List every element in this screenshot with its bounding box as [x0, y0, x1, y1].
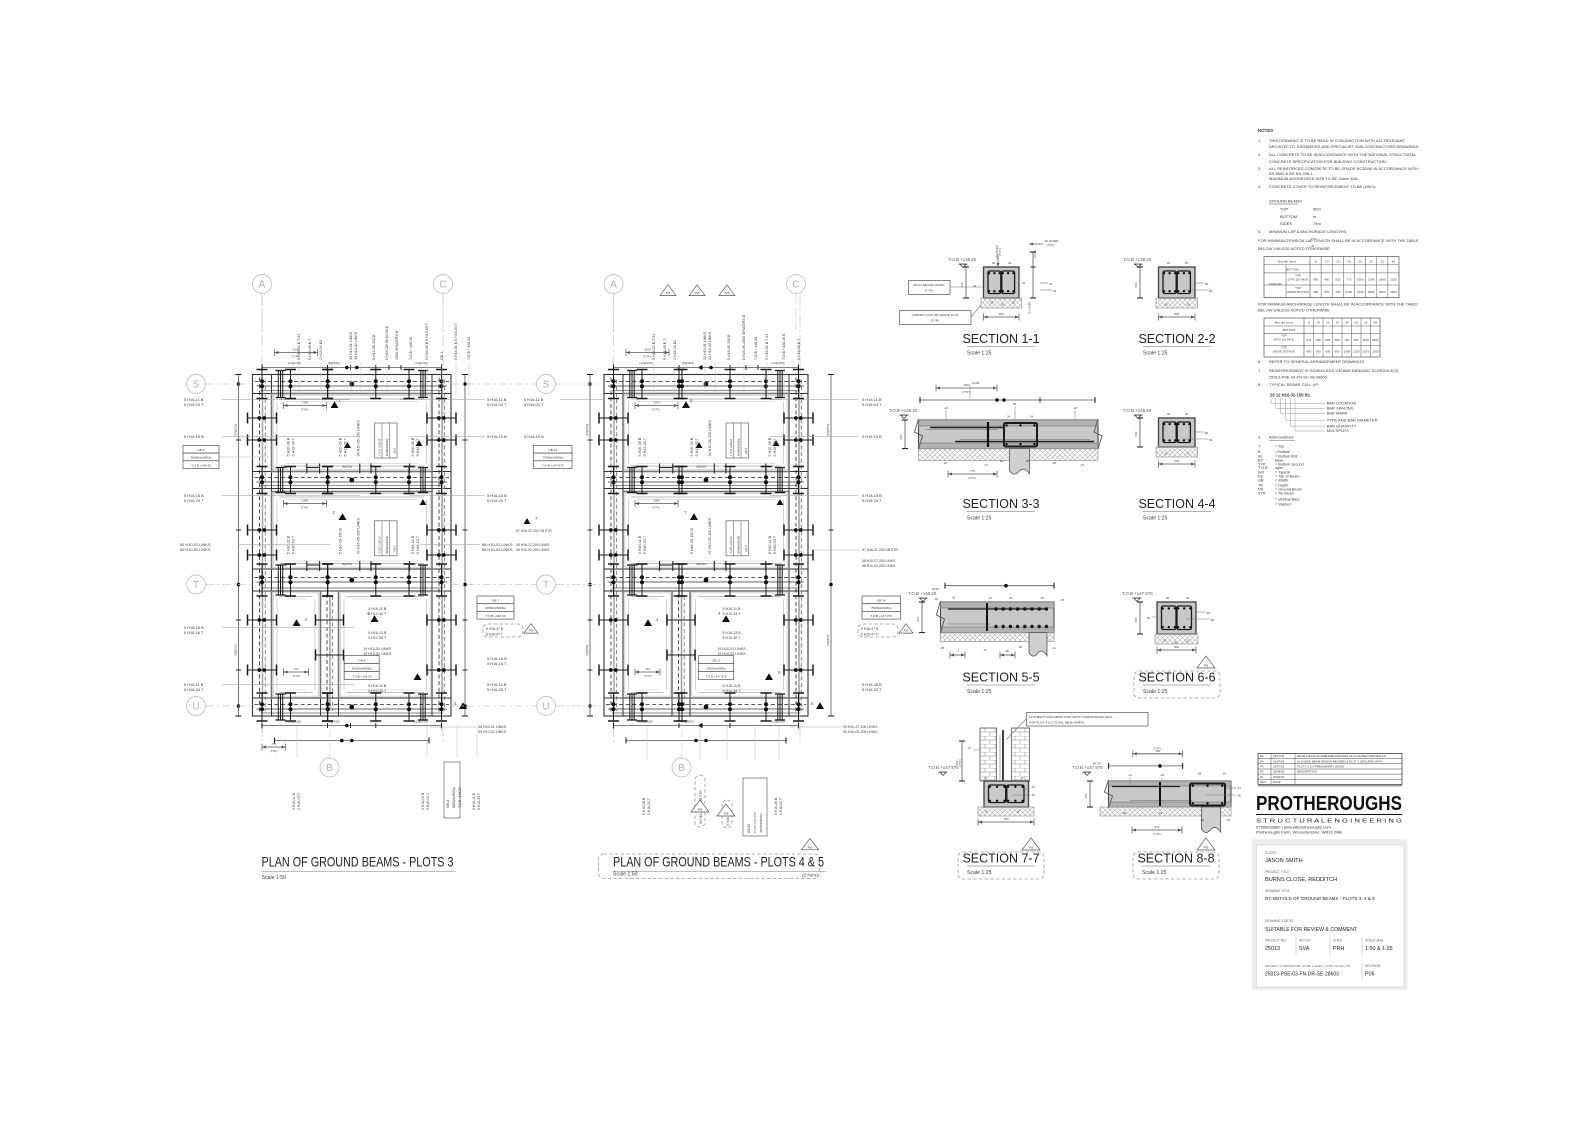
- svg-text:GB-7: GB-7: [492, 599, 500, 603]
- svg-text:BELOW UNLESS NOTED OTHERWISE: BELOW UNLESS NOTED OTHERWISE: [1258, 246, 1330, 251]
- svg-text:PLAN OF GROUND BEAMS - PLOTS 4: PLAN OF GROUND BEAMS - PLOTS 4 & 5: [613, 853, 824, 869]
- svg-text:48 H10-02-200 LINKS: 48 H10-02-200 LINKS: [862, 564, 896, 568]
- svg-text:5 H20-08 B: 5 H20-08 B: [638, 437, 642, 456]
- svg-text:1100: 1100: [963, 383, 970, 387]
- lap length table: [1264, 257, 1399, 298]
- svg-text:T.O.B +148.20: T.O.B +148.20: [352, 674, 372, 678]
- svg-text:25: 25: [1369, 259, 1373, 263]
- svg-text:875: 875: [1354, 338, 1359, 342]
- grid bubble B (plan 1): [320, 758, 339, 777]
- svg-text:75m: 75m: [1313, 221, 1321, 226]
- svg-text:34 H10-05-150 LINKS: 34 H10-05-150 LINKS: [708, 420, 712, 457]
- revision table: [1258, 754, 1402, 785]
- svg-text:P05: P05: [1204, 846, 1209, 850]
- svg-text:Scale 1:50: Scale 1:50: [613, 872, 638, 878]
- room edge rebar lines: [280, 398, 425, 400]
- svg-text:570: 570: [1155, 825, 1160, 829]
- ground beam band: [604, 568, 808, 570]
- svg-text:5 H12-34 T: 5 H12-34 T: [292, 437, 296, 456]
- svg-text:Scale 1:25: Scale 1:25: [1143, 516, 1168, 522]
- svg-text:TYPICAL REBAR CALL UP:: TYPICAL REBAR CALL UP:: [1269, 382, 1319, 387]
- P05 marker sec8: [1197, 838, 1215, 850]
- svg-text:Scale 1:25: Scale 1:25: [967, 870, 992, 876]
- rebar dots section 5-5: [994, 607, 997, 610]
- room slab panel: [623, 394, 789, 472]
- svg-text:S: S: [193, 380, 200, 391]
- grid bubble C (plan 1): [434, 275, 453, 294]
- svg-text:770: 770: [970, 469, 975, 473]
- svg-text:57 H16-37-200 VB STR: 57 H16-37-200 VB STR: [862, 548, 898, 552]
- svg-text:B: B: [326, 763, 333, 774]
- svg-text:1100: 1100: [644, 348, 651, 352]
- svg-text:T.O.B +148.20: T.O.B +148.20: [1123, 257, 1152, 262]
- svg-text:(14@150): (14@150): [282, 562, 294, 566]
- svg-text:12: 12: [1326, 321, 1330, 325]
- svg-text:Bar dia (mm): Bar dia (mm): [1278, 259, 1296, 263]
- svg-text:-07: -07: [988, 596, 992, 600]
- svg-text:ALL CONCRETE TO BE IN ACCORDAN: ALL CONCRETE TO BE IN ACCORDANCE WITH TH…: [1269, 152, 1417, 157]
- svg-text:5 H16-11 B: 5 H16-11 B: [411, 535, 415, 554]
- svg-text:500: 500: [1134, 431, 1138, 436]
- svg-text:(14@150): (14@150): [826, 424, 830, 437]
- ground beam band vertical: [431, 375, 433, 717]
- svg-text:PA: PA: [1260, 754, 1264, 758]
- svg-text:T.O.B +148.20: T.O.B +148.20: [191, 463, 211, 467]
- svg-text:GB-2: GB-2: [744, 447, 748, 454]
- room edge rebar lines: [280, 596, 313, 598]
- grid line A: [261, 294, 263, 745]
- svg-text:24: 24: [1030, 415, 1034, 419]
- in-room GB label box (rotated): [726, 521, 749, 556]
- svg-text:5 H12-34 T: 5 H12-34 T: [368, 612, 387, 616]
- svg-text:P05: P05: [725, 291, 730, 295]
- svg-text:5 H16-03 T: 5 H16-03 T: [184, 402, 204, 407]
- svg-text:= Bottom: = Bottom: [1275, 450, 1290, 454]
- svg-text:5 H16-20 T: 5 H16-20 T: [487, 498, 507, 503]
- svg-text:-29: -29: [1200, 818, 1204, 822]
- svg-text:GB: GB: [1258, 479, 1264, 483]
- svg-text:04: 04: [1022, 281, 1026, 285]
- svg-text:PROJECT TITLE: PROJECT TITLE: [1265, 870, 1289, 874]
- svg-text:5 H16-28+5H16-05 B: 5 H16-28+5H16-05 B: [385, 325, 389, 360]
- room slab panel: [690, 591, 789, 698]
- svg-text:09: 09: [1008, 261, 1012, 265]
- svg-text:T.O.B +147.975: T.O.B +147.975: [542, 463, 564, 467]
- svg-text:5 H12-34 T: 5 H12-34 T: [773, 437, 777, 456]
- heave guard hatched strip: [978, 807, 1034, 816]
- svg-text:BOTTOM: BOTTOM: [1286, 268, 1299, 272]
- svg-text:-21: -21: [1128, 773, 1132, 777]
- svg-text:5 H16-11 B: 5 H16-11 B: [768, 535, 772, 554]
- svg-text:750Wdx500Dp: 750Wdx500Dp: [871, 606, 892, 610]
- svg-text:-05: -05: [1060, 598, 1064, 602]
- svg-text:5 H16-28 B: 5 H16-28 B: [774, 797, 778, 815]
- svg-text:REV BY: REV BY: [1299, 939, 1312, 943]
- svg-text:(TYP.): (TYP.): [301, 408, 309, 412]
- svg-text:REV: REV: [1260, 780, 1266, 784]
- heave guard hatched strip: [919, 449, 1099, 461]
- svg-text:525: 525: [1325, 338, 1330, 342]
- svg-text:50m: 50m: [1313, 206, 1321, 211]
- svg-text:500: 500: [1084, 793, 1088, 798]
- svg-text:(13@150): (13@150): [288, 719, 301, 723]
- grid bubble U mid: [537, 697, 556, 716]
- svg-text:500: 500: [1134, 617, 1138, 622]
- svg-text:5 H20-08 B: 5 H20-08 B: [411, 437, 415, 456]
- svg-text:5 H16-01 B 5 H16-03 T: 5 H16-01 B 5 H16-03 T: [454, 322, 458, 360]
- sec1 dims: [965, 267, 967, 298]
- svg-text:T.O.B +148.20: T.O.B +148.20: [467, 337, 471, 360]
- title SECTION 7-7: [958, 852, 1044, 879]
- svg-text:3200: 3200: [1390, 290, 1397, 294]
- svg-text:20 12 H16 02-150 B1: 20 12 H16 02-150 B1: [1270, 393, 1311, 398]
- svg-text:400: 400: [1324, 278, 1329, 282]
- svg-text:SECTION 3-3: SECTION 3-3: [962, 497, 1039, 511]
- svg-text:600Wdx500Dp: 600Wdx500Dp: [737, 438, 741, 456]
- P05 marker sec7: [1022, 838, 1040, 850]
- svg-text:T: T: [193, 580, 199, 591]
- svg-text:800: 800: [1335, 350, 1340, 354]
- svg-text:500: 500: [1134, 282, 1138, 287]
- svg-text:TYPE AND BAR DIAMETER: TYPE AND BAR DIAMETER: [1327, 417, 1378, 422]
- grid line C: [799, 294, 801, 745]
- heave guard hatched strip: [941, 633, 1055, 642]
- svg-text:C: C: [439, 280, 446, 291]
- svg-text:5 H16-20 T: 5 H16-20 T: [862, 498, 882, 503]
- svg-text:T.O.B +148.20: T.O.B +148.20: [378, 438, 382, 456]
- svg-text:(TYP.): (TYP.): [652, 506, 660, 510]
- svg-text:5 H16-05 B: 5 H16-05 B: [421, 792, 425, 810]
- svg-text:1500 SPACERS B: 1500 SPACERS B: [395, 330, 399, 360]
- svg-text:T.O.B +147.975: T.O.B +147.975: [870, 614, 892, 618]
- svg-text:-07: -07: [984, 810, 988, 814]
- svg-text:TOP: TOP: [1295, 274, 1301, 278]
- svg-text:B2: B2: [1211, 618, 1215, 622]
- svg-text:DATE: DATE: [1273, 780, 1281, 784]
- P05 marker sec6: [1197, 656, 1215, 668]
- svg-text:(TYP.): (TYP.): [652, 408, 660, 412]
- svg-text:5 H16-19 B: 5 H16-19 B: [862, 434, 882, 439]
- svg-text:5 H12-34 T: 5 H12-34 T: [416, 437, 420, 456]
- svg-text:5 H16-13 B: 5 H16-13 B: [368, 631, 387, 635]
- svg-text:(TYP.): (TYP.): [1153, 832, 1161, 836]
- svg-text:(ABOVE 250 THICK): (ABOVE 250 THICK): [1287, 291, 1309, 294]
- svg-text:(9@150): (9@150): [234, 644, 238, 655]
- svg-text:T.O.B +148.20: T.O.B +148.20: [908, 591, 937, 596]
- svg-text:(ABOVE 250 THICK): (ABOVE 250 THICK): [1273, 351, 1295, 354]
- svg-text:GB-14: GB-14: [877, 599, 886, 603]
- svg-text:Scale 1:50: Scale 1:50: [262, 875, 287, 881]
- svg-text:P05: P05: [1029, 846, 1034, 850]
- svg-text:P1: P1: [1260, 775, 1264, 779]
- svg-text:5 H16-11 B: 5 H16-11 B: [638, 535, 642, 554]
- svg-text:5 H16-05 B T: 5 H16-05 B T: [663, 338, 667, 360]
- svg-text:GB-2: GB-2: [393, 447, 397, 454]
- svg-text:GB-15: GB-15: [747, 824, 751, 833]
- svg-text:400: 400: [1306, 350, 1311, 354]
- svg-text:SECTION 5-5: SECTION 5-5: [962, 671, 1039, 685]
- svg-text:700: 700: [294, 667, 299, 671]
- svg-text:(12@150): (12@150): [761, 465, 773, 469]
- svg-text:SIDES: SIDES: [1280, 221, 1292, 226]
- cordek label box: [900, 311, 972, 325]
- svg-text:TOP: TOP: [1281, 346, 1287, 350]
- ground beam band vertical: [603, 375, 605, 717]
- concrete beam section: [1157, 602, 1196, 634]
- svg-text:20: 20: [1345, 321, 1349, 325]
- svg-text:9.: 9.: [1258, 435, 1261, 440]
- svg-text:50 COVER: 50 COVER: [1045, 239, 1058, 243]
- svg-text:B1: B1: [1205, 431, 1209, 435]
- svg-text:Scale 1:25: Scale 1:25: [967, 516, 992, 522]
- svg-text:CORDEK HX-B 155 GRADE 16-24: CORDEK HX-B 155 GRADE 16-24: [912, 313, 959, 317]
- svg-text:P05: P05: [695, 291, 700, 295]
- svg-text:1300: 1300: [302, 499, 309, 503]
- room edge rebar lines: [698, 596, 781, 598]
- ground beam band: [604, 471, 808, 473]
- svg-text:750Wdx500Dp: 750Wdx500Dp: [543, 456, 564, 460]
- svg-text:FOR MINIMUM ANCHORAGE LENGTH S: FOR MINIMUM ANCHORAGE LENGTH SHALL BE IN…: [1258, 301, 1418, 306]
- svg-text:(13@150): (13@150): [771, 719, 784, 723]
- svg-text:(14@150): (14@150): [234, 424, 238, 437]
- svg-text:680Wdx500Dp: 680Wdx500Dp: [485, 606, 506, 610]
- svg-text:-27: -27: [1237, 786, 1241, 790]
- concrete beam section: [984, 267, 1020, 298]
- svg-text:2250: 2250: [1390, 278, 1397, 282]
- svg-text:TYP: TYP: [1311, 237, 1317, 241]
- svg-text:(9@150): (9@150): [585, 644, 589, 655]
- svg-text:16: 16: [1335, 321, 1339, 325]
- svg-text:(TYP.): (TYP.): [968, 476, 976, 480]
- svg-text:MAXIMUM AGGREGATE SIZE TO BE 2: MAXIMUM AGGREGATE SIZE TO BE 20mm DIA.: [1269, 176, 1358, 181]
- GB-5 label box: [183, 445, 219, 453]
- svg-text:5 H16-32 T: 5 H16-32 T: [647, 798, 651, 815]
- svg-text:600: 600: [1174, 312, 1179, 316]
- svg-text:STR: STR: [1258, 492, 1266, 496]
- top dimension line: [262, 367, 442, 369]
- svg-text:500: 500: [899, 434, 903, 439]
- svg-text:T.O.B +148.20: T.O.B +148.20: [1123, 408, 1152, 413]
- svg-text:= Starters: = Starters: [1275, 503, 1292, 507]
- svg-text:T.O.B +148.20: T.O.B +148.20: [754, 337, 758, 360]
- ground beam band vertical: [320, 591, 322, 716]
- mesh line in cavity: [1002, 730, 1004, 800]
- svg-text:5 H16-05-150 B: 5 H16-05-150 B: [372, 334, 376, 360]
- svg-text:08: 08: [952, 596, 956, 600]
- svg-text:JASON SMITH: JASON SMITH: [1265, 858, 1303, 864]
- svg-text:25 H10-27-200 LINKS: 25 H10-27-200 LINKS: [843, 725, 878, 729]
- GB-7 label box: [477, 596, 514, 604]
- svg-text:5 H20-08 B: 5 H20-08 B: [287, 437, 291, 456]
- svg-text:T.O.B +148.20: T.O.B +148.20: [458, 787, 462, 808]
- section cut markers: [682, 401, 690, 408]
- svg-text:5 H16-47 B: 5 H16-47 B: [861, 627, 879, 631]
- svg-text:03: 03: [1147, 616, 1151, 620]
- svg-text:(9@150): (9@150): [826, 634, 830, 645]
- svg-text:8.: 8.: [1258, 382, 1261, 387]
- svg-text:1300: 1300: [653, 401, 660, 405]
- svg-text:10: 10: [1325, 259, 1329, 263]
- svg-text:5 H16-32 T: 5 H16-32 T: [862, 687, 882, 692]
- svg-text:1.: 1.: [1258, 138, 1261, 143]
- svg-text:5 H16-11 B: 5 H16-11 B: [368, 607, 387, 611]
- sec7 dims: [961, 741, 963, 781]
- svg-text:500: 500: [960, 282, 964, 287]
- svg-text:20/06/25: 20/06/25: [1273, 775, 1285, 779]
- svg-text:REFER TO GENERAL ARRANGEMENT D: REFER TO GENERAL ARRANGEMENT DRAWINGS.: [1269, 359, 1365, 364]
- ground beam band vertical: [788, 375, 790, 717]
- svg-text:Scale 1:25: Scale 1:25: [967, 351, 992, 357]
- svg-text:(14@150): (14@150): [633, 465, 645, 469]
- svg-text:-29: -29: [1160, 773, 1164, 777]
- svg-text:Scale 1:25: Scale 1:25: [1143, 351, 1168, 357]
- svg-text:B1: B1: [1013, 402, 1017, 406]
- heave guard hatched strip: [981, 298, 1022, 308]
- svg-text:DRAWING STATUS: DRAWING STATUS: [1265, 919, 1293, 923]
- svg-text:600Wdx500Dp: 600Wdx500Dp: [191, 456, 212, 460]
- svg-text:P4: P4: [1260, 759, 1264, 763]
- svg-text:B1: B1: [1205, 282, 1209, 286]
- svg-text:5 H16-03 T: 5 H16-03 T: [487, 402, 507, 407]
- svg-text:PROJECT | ORIGINATOR | ZONE |: PROJECT | ORIGINATOR | ZONE | LEVEL | TY…: [1265, 964, 1351, 968]
- svg-text:8: 8: [1308, 321, 1310, 325]
- svg-text:SECTION 8-8: SECTION 8-8: [1137, 852, 1214, 866]
- svg-text:-16: -16: [943, 461, 947, 465]
- svg-text:29: 29: [1167, 261, 1171, 265]
- svg-text:SUITABLE FOR REVIEW & COMMENT: SUITABLE FOR REVIEW & COMMENT: [1265, 927, 1358, 933]
- svg-text:5 H16-08-150 B: 5 H16-08-150 B: [338, 528, 342, 555]
- svg-text:PROJECT NO.: PROJECT NO.: [1265, 939, 1286, 943]
- svg-text:5 H16-11 B: 5 H16-11 B: [723, 607, 742, 611]
- room slab panel: [272, 591, 321, 698]
- svg-text:(TYP.): (TYP.): [962, 390, 970, 394]
- svg-text:-27: -27: [967, 746, 971, 750]
- svg-text:750Wdx500Dp: 750Wdx500Dp: [706, 666, 726, 670]
- revision cloud label 5H16-47: [483, 624, 523, 637]
- svg-text:-05: -05: [1016, 810, 1020, 814]
- link tick marks: [257, 370, 448, 722]
- svg-text:5 H16-16 T: 5 H16-16 T: [184, 630, 204, 635]
- svg-text:350: 350: [1316, 338, 1321, 342]
- svg-text:5 H12-34 T: 5 H12-34 T: [723, 612, 742, 616]
- svg-text:5 H16-28 T: 5 H16-28 T: [487, 687, 507, 692]
- svg-text:P05: P05: [904, 629, 909, 633]
- svg-text:(TYP.): (TYP.): [931, 319, 939, 323]
- svg-text:= Width: = Width: [1275, 479, 1288, 483]
- svg-text:24: 24: [1007, 415, 1011, 419]
- svg-text:2 H25-43 B2: 2 H25-43 B2: [673, 340, 677, 360]
- svg-text:5 H12-35 T: 5 H12-35 T: [344, 437, 348, 456]
- ground beam band: [253, 471, 452, 473]
- svg-text:10: 10: [1316, 321, 1320, 325]
- svg-text:Scale 1:25: Scale 1:25: [1143, 689, 1168, 695]
- concrete beam section: [984, 781, 1029, 807]
- svg-text:-27: -27: [1031, 785, 1035, 789]
- svg-text:(TYP.): (TYP.): [643, 355, 651, 359]
- svg-text:5 H16-03 T: 5 H16-03 T: [416, 535, 420, 554]
- grid bubble C (plan 2): [787, 275, 806, 294]
- svg-text:REVISION: REVISION: [1365, 964, 1381, 968]
- svg-text:-08: -08: [1005, 649, 1009, 653]
- svg-text:380: 380: [1313, 278, 1318, 282]
- svg-text:SECTION 7-7: SECTION 7-7: [962, 852, 1039, 866]
- svg-text:32: 32: [1364, 321, 1368, 325]
- lap length table: [1264, 318, 1380, 357]
- svg-text:C: C: [792, 280, 799, 291]
- svg-text:600Wdx500Dp: 600Wdx500Dp: [385, 438, 389, 456]
- svg-text:275: 275: [1306, 338, 1311, 342]
- svg-text:GB-6: GB-6: [358, 658, 365, 662]
- svg-text:-03: -03: [1040, 596, 1044, 600]
- room edge rebar lines: [280, 496, 425, 498]
- svg-text:SVA: SVA: [1299, 946, 1310, 952]
- svg-text:Bar dia (mm): Bar dia (mm): [1275, 321, 1293, 325]
- svg-text:1308: 1308: [1368, 278, 1375, 282]
- svg-text:SECTION 4-4: SECTION 4-4: [1138, 497, 1215, 511]
- svg-text:5 H12-35 T: 5 H12-35 T: [723, 636, 742, 640]
- svg-text:-19: -19: [1080, 463, 1084, 467]
- GB-12 label box: [534, 445, 573, 453]
- svg-text:5 H16-19 B: 5 H16-19 B: [524, 434, 544, 439]
- svg-text:40: 40: [1373, 321, 1377, 325]
- svg-text:(14@150): (14@150): [414, 361, 427, 365]
- svg-text:-08: -08: [940, 646, 944, 650]
- svg-text:Abbreviations:: Abbreviations:: [1269, 435, 1294, 440]
- svg-text:5 H16-05 T: 5 H16-05 T: [426, 793, 430, 810]
- svg-text:(TYP.): (TYP.): [1047, 243, 1055, 247]
- side vertical dimension: [238, 375, 240, 717]
- svg-text:S: S: [543, 380, 550, 391]
- svg-text:T.O.B +147.975: T.O.B +147.975: [1122, 591, 1153, 596]
- plan title: [599, 854, 820, 879]
- svg-text:36 H10-02 LINKS: 36 H10-02 LINKS: [354, 331, 358, 360]
- svg-text:28: 28: [1186, 596, 1190, 600]
- room edge rebar lines: [631, 398, 781, 400]
- svg-text:T.O.B +148.20: T.O.B +148.20: [486, 614, 506, 618]
- svg-text:NOTES: NOTES: [1258, 128, 1273, 133]
- svg-text:(13@150): (13@150): [414, 719, 427, 723]
- svg-text:04: 04: [1009, 596, 1013, 600]
- svg-text:550: 550: [1335, 338, 1340, 342]
- in-room GB label box (rotated): [375, 423, 398, 458]
- svg-text:600Wdx500Dp: 600Wdx500Dp: [737, 535, 741, 553]
- svg-text:B2: B2: [1209, 289, 1213, 293]
- svg-text:(TYP.): (TYP.): [644, 674, 652, 678]
- svg-text:27 H10-05-200 LINKS: 27 H10-05-200 LINKS: [356, 517, 360, 554]
- svg-text:1000: 1000: [1357, 278, 1364, 282]
- grid bubble B (plan 2): [672, 758, 691, 777]
- title SECTION 6-6: [1134, 671, 1220, 698]
- svg-text:32 H10-01 LINKS: 32 H10-01 LINKS: [703, 331, 707, 360]
- svg-text:GB-5: GB-5: [197, 448, 205, 452]
- svg-text:TOP: TOP: [1295, 286, 1301, 290]
- svg-text:6.: 6.: [1258, 359, 1261, 364]
- svg-text:DRAWING TITLE: DRAWING TITLE: [1265, 889, 1290, 893]
- heave guard hatched strip: [1155, 634, 1198, 644]
- svg-text:19 H10-01 LINKS: 19 H10-01 LINKS: [717, 647, 746, 651]
- svg-text:-26: -26: [1222, 772, 1226, 776]
- svg-text:-30: -30: [1122, 811, 1126, 815]
- svg-text:03: 03: [1049, 282, 1053, 286]
- svg-text:5 H16-03 T: 5 H16-03 T: [773, 535, 777, 554]
- svg-text:5 H16-02 B T 01: 5 H16-02 B T 01: [652, 334, 656, 360]
- svg-text:5 H12-34 T: 5 H12-34 T: [477, 793, 481, 810]
- svg-text:(12@150): (12@150): [404, 465, 416, 469]
- svg-text:SCALE @A1: SCALE @A1: [1365, 939, 1384, 943]
- section cut markers: [331, 401, 339, 408]
- svg-text:1500: 1500: [1372, 338, 1379, 342]
- svg-text:600: 600: [1174, 459, 1179, 463]
